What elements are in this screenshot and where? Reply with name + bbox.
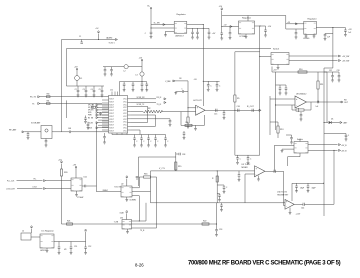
ground below U9 <box>258 176 260 180</box>
wire to +5V rail <box>271 67 273 73</box>
wire switch input left <box>260 56 271 58</box>
capacitor C4 decoupling <box>93 86 95 90</box>
ground below reg3 left pin <box>305 34 307 36</box>
wire op-amp U8 inputs <box>270 98 295 100</box>
wire U10 output <box>294 203 303 205</box>
capacitor C on B+ input <box>150 31 153 33</box>
connector IF_OUT <box>259 109 261 111</box>
resistor R17 on chain <box>216 176 218 182</box>
svg-text:C38: C38 <box>182 154 185 156</box>
capacitor decoupling bus2 <box>141 82 143 84</box>
capacitor C14 on bias feed <box>176 91 183 93</box>
wire chain vertical <box>217 170 218 171</box>
capacitor C46 on antenna line <box>27 132 29 134</box>
svg-text:+4.5V: +4.5V <box>296 214 302 216</box>
wire input to DC regulator <box>31 236 40 238</box>
wire long row y=203 <box>151 202 286 204</box>
wire antenna to U1 <box>52 131 69 133</box>
wire switch2 input <box>275 144 295 146</box>
wire XCVR_RX row <box>131 98 156 100</box>
capacitor C50 <box>58 242 60 248</box>
svg-text:C53: C53 <box>219 229 222 231</box>
capacitor U1 bypass bottom <box>148 135 150 139</box>
wire reg2 input bus <box>221 11 223 34</box>
svg-text:L3: L3 <box>136 74 138 76</box>
wire vertical riser x=139.3 upper <box>138 177 140 188</box>
capacitor decoupling bus2 <box>132 82 134 84</box>
wire riser up to switch2 <box>333 150 335 204</box>
wire inner left vertical <box>66 49 68 87</box>
wire switch section top link <box>235 51 260 53</box>
node +5V flag above reg2 input <box>221 9 223 11</box>
capacitor C51 <box>70 242 72 248</box>
svg-text:L2: L2 <box>124 71 126 73</box>
wire top-left horizontal bus <box>62 39 116 41</box>
resistor R22 near bottom junction <box>202 223 209 225</box>
svg-text:TELEMETRY: TELEMETRY <box>277 194 289 196</box>
wire vertical to bottom bus <box>216 203 218 224</box>
wire inner loop top <box>139 156 176 158</box>
capacitor C47 below J1 <box>45 139 47 141</box>
diode D1 <box>323 122 324 123</box>
capacitor C13 lower left <box>183 131 185 133</box>
svg-text:V_REF: V_REF <box>165 81 170 83</box>
wire B+ to regulator U3 row1 <box>151 24 174 26</box>
capacitor U1 bypass bottom-left <box>104 133 106 137</box>
resistor R2 zigzag to op-amp <box>131 111 143 113</box>
resistor R16 <box>139 176 143 178</box>
capacitor C26 reg3 input <box>295 29 297 33</box>
capacitor C19 series <box>251 109 253 112</box>
svg-text:C15: C15 <box>214 114 217 116</box>
wire inner top horizontal bus <box>67 48 272 50</box>
wire vertical to staircase <box>145 203 147 221</box>
ground below switch <box>277 65 279 68</box>
svg-text:R20: R20 <box>64 172 67 174</box>
svg-text:C44: C44 <box>301 208 304 210</box>
svg-text:R8: R8 <box>179 78 181 80</box>
wire left outer vertical bus <box>61 40 63 132</box>
node +5V flag TCXO bias <box>61 162 63 164</box>
connector J2 power input <box>21 233 31 240</box>
svg-text:R5: R5 <box>237 98 239 100</box>
connector RX_OUT <box>341 101 343 103</box>
wire vertical bus from regulator U3 output <box>202 25 204 107</box>
svg-text:+5V_SW: +5V_SW <box>342 56 349 58</box>
node SPI control labels left of U1 <box>98 104 109 106</box>
wire U9 output <box>265 170 284 172</box>
svg-text:XOUT: XOUT <box>109 119 114 121</box>
resistor R20 vertical <box>60 169 62 176</box>
svg-text:C33: C33 <box>337 70 340 72</box>
svg-text:TCXO: TCXO <box>114 186 119 188</box>
svg-text:LOCK_DET: LOCK_DET <box>6 189 15 191</box>
capacitor decoupling bus2 <box>123 82 125 84</box>
capacitor op-amp supply bypass <box>207 81 209 84</box>
svg-text:C32: C32 <box>329 70 332 72</box>
wire U1 left pin stubs <box>102 99 109 101</box>
wire U13 right pins <box>132 220 147 222</box>
resistor R30 series on RX_TG <box>46 96 50 98</box>
svg-text:1nF: 1nF <box>316 106 319 108</box>
svg-text:C16: C16 <box>237 106 240 108</box>
wire bias feed to op-amp + input <box>173 80 175 82</box>
svg-text:C52: C52 <box>88 246 91 248</box>
node +5V flag above L3 <box>141 60 143 62</box>
ground below U11 <box>76 191 78 195</box>
svg-text:C48: C48 <box>68 128 71 130</box>
capacitor U1 bypass bottom <box>134 135 136 139</box>
svg-text:+3V_B: +3V_B <box>341 151 347 153</box>
svg-text:V8: V8 <box>64 249 66 251</box>
capacitor C22 reg2 input <box>220 32 223 34</box>
capacitor C15 series <box>215 109 217 112</box>
svg-text:XOUT: XOUT <box>109 104 114 106</box>
capacitor C24 reg2 output <box>260 25 266 27</box>
ground below U2 <box>126 197 128 200</box>
ground below reg2 <box>245 34 247 37</box>
wire decoupling bus 1 <box>67 85 105 87</box>
wire op-amp U8 output <box>306 101 317 103</box>
wire XCVR_TX row <box>131 102 156 104</box>
capacitor C48 series on antenna line <box>68 131 70 134</box>
capacitor U1 bypass bottom <box>141 135 143 139</box>
svg-text:R6: R6 <box>186 122 188 124</box>
ground left of reg1 <box>166 30 175 32</box>
svg-text:R16: R16 <box>144 174 147 176</box>
op-amp U2 oscillator TCXO buffer <box>121 186 132 197</box>
svg-text:SPI_EN: SPI_EN <box>88 110 93 112</box>
svg-text:R21: R21 <box>67 220 70 222</box>
node +3V flag right <box>85 232 87 247</box>
wire reg1 output rows <box>187 24 204 26</box>
svg-text:R15: R15 <box>178 166 181 168</box>
wire net stub with label <box>151 170 176 172</box>
svg-text:C3: C3 <box>83 89 85 91</box>
resistor R13 vertical <box>277 126 279 133</box>
wire op-amp U8 power down <box>298 108 300 112</box>
ground below U10 <box>289 208 291 213</box>
wire U10 output to right riser <box>304 203 334 205</box>
capacitor C63 right of U1 <box>131 118 170 120</box>
resistor R5 vertical pull-up <box>234 110 235 111</box>
capacitor C36 <box>291 135 293 138</box>
svg-text:R11: R11 <box>320 84 323 86</box>
wire U2 pin3 to riser <box>132 195 139 197</box>
wire U9 output down to U10 <box>283 171 285 205</box>
capacitor telemetry bypass <box>307 183 309 186</box>
wire U2 pin1 to riser <box>132 187 139 189</box>
wire decoupling bus 2 <box>119 81 147 83</box>
svg-text:Regulator: Regulator <box>242 17 251 20</box>
wire right vertical bus 1 <box>323 68 325 216</box>
resistor R31 series on TX <box>46 103 50 105</box>
wire staircase from U2 <box>132 191 151 193</box>
op-amp U1 transceiver IC <box>109 96 128 134</box>
svg-text:+3V_SW: +3V_SW <box>342 61 349 63</box>
svg-text:TCXO 1: TCXO 1 <box>109 42 115 44</box>
svg-text:U4 TL072: U4 TL072 <box>193 100 203 102</box>
svg-text:U10 TL072: U10 TL072 <box>277 191 288 193</box>
resistor R6 in feedback <box>185 124 192 126</box>
node +5V flag on top-left bus <box>98 39 99 40</box>
wire reg3 output vertical <box>332 28 334 69</box>
node +3V flag above L1 <box>76 69 78 71</box>
capacitor reg1 output bypass <box>197 28 199 32</box>
svg-text:XOUT: XOUT <box>109 122 114 124</box>
wire IF path down to mixer <box>234 110 236 155</box>
wire right vertical bus 2 <box>326 72 328 123</box>
wire switch outputs <box>289 55 338 57</box>
svg-text:XOUT: XOUT <box>109 125 114 127</box>
svg-text:XOUT: XOUT <box>109 101 114 103</box>
wire feedback loop U4 <box>180 112 182 126</box>
capacitor C40 on U9 + input <box>238 171 240 175</box>
capacitor U1 bypass bottom <box>155 135 157 139</box>
node +3V flag above U11 <box>75 167 77 169</box>
capacitor C3 decoupling <box>85 86 87 90</box>
svg-text:Switch: Switch <box>273 47 280 50</box>
svg-text:TX_IF: TX_IF <box>157 104 162 106</box>
capacitor C2 decoupling <box>77 86 79 90</box>
connector 1A-MHZ out <box>115 39 117 41</box>
resistor R32 series in row <box>92 106 96 108</box>
svg-text:R22: R22 <box>203 220 206 222</box>
wire U13 row3 <box>132 227 157 229</box>
inductor L1 ferrite bead <box>76 71 78 76</box>
wire U1 right loop 2 <box>131 114 156 116</box>
wire feedback vertical <box>275 72 277 130</box>
capacitor C21 right of junction <box>203 27 209 29</box>
capacitor op-amp supply bypass <box>216 81 218 84</box>
ground below U13 <box>127 229 129 232</box>
wire bead row <box>103 66 124 68</box>
capacitor C28 reg3 output <box>333 27 346 29</box>
svg-text:R13: R13 <box>280 129 283 131</box>
svg-text:XOUT: XOUT <box>109 116 114 118</box>
capacitor U9 supply bypass <box>237 155 239 158</box>
svg-text:XCVR_TX: XCVR_TX <box>137 104 146 106</box>
wire left vertical bus op-amp section <box>269 96 271 135</box>
resistor R3 to ground <box>187 117 189 123</box>
capacitor C41 series on U9 output <box>273 170 275 173</box>
capacitor C39 <box>136 175 139 177</box>
svg-text:B+_SW: B+_SW <box>154 22 160 24</box>
wire switch2 vertical to U9 <box>274 145 276 171</box>
resistor R11 vertical <box>317 81 319 89</box>
wire to op-amp U9 + input <box>176 170 255 172</box>
capacitor chain 2 <box>217 193 219 195</box>
svg-text:RX_EN: RX_EN <box>88 117 93 119</box>
svg-text:Regulator: Regulator <box>177 13 186 16</box>
svg-text:PLL: PLL <box>34 179 37 181</box>
svg-text:XCVR_RX: XCVR_RX <box>137 97 146 99</box>
svg-text:C51: C51 <box>74 246 77 248</box>
capacitor U9 supply bypass <box>247 155 249 158</box>
svg-text:DC Regulator: DC Regulator <box>42 230 54 233</box>
ground below reg3 right pin <box>313 34 315 36</box>
capacitor C16 series <box>237 109 239 112</box>
svg-text:+5V_B: +5V_B <box>341 145 347 147</box>
capacitor C44 series on U10 output <box>302 203 304 206</box>
capacitor C1 on top-left bus <box>81 40 83 43</box>
inductor L3 ferrite bead vertical <box>141 67 143 72</box>
svg-text:XCVR ANT: XCVR ANT <box>31 122 41 125</box>
ground mid row <box>100 112 102 113</box>
capacitor C31 <box>285 85 287 88</box>
svg-text:R31: R31 <box>47 101 50 103</box>
svg-text:C2: C2 <box>75 89 77 91</box>
svg-text:1uF: 1uF <box>348 32 351 34</box>
connector ANT_OUT <box>340 122 342 124</box>
capacitor C5 decoupling <box>101 86 103 90</box>
svg-text:C1: C1 <box>79 36 81 38</box>
svg-text:R2: R2 <box>148 108 150 110</box>
wire IF bias vertical <box>234 52 236 95</box>
node B+ flag input reg1 <box>150 8 152 10</box>
svg-text:XOUT: XOUT <box>109 130 114 132</box>
ground below U12 <box>46 248 48 251</box>
svg-text:1uF: 1uF <box>327 37 330 39</box>
node flag above input <box>31 227 33 229</box>
svg-text:8-26: 8-26 <box>135 262 144 267</box>
svg-text:U13: U13 <box>120 217 123 219</box>
svg-text:MIXER: MIXER <box>242 167 249 169</box>
svg-text:D1: D1 <box>331 119 333 121</box>
svg-text:26MHZ: 26MHZ <box>103 190 108 192</box>
wire reg2 output <box>255 25 261 27</box>
svg-text:C5: C5 <box>99 89 101 91</box>
wire U10 power feed <box>291 183 293 201</box>
capacitor C20 shunt to ground <box>223 110 225 113</box>
svg-text:C4: C4 <box>91 89 93 91</box>
wire inner vertical segment <box>66 100 68 118</box>
ground switch2 pin <box>282 148 294 150</box>
capacitor decoupling on bead row <box>104 67 106 70</box>
wire B+ to regulator U3 row2 <box>150 27 151 28</box>
resistor R10 on rail <box>298 71 307 73</box>
svg-text:T_EN: T_EN <box>114 222 119 224</box>
capacitor chain 1 <box>217 184 224 186</box>
capacitor C61 left of U1 <box>85 116 87 119</box>
capacitor decoupling on bead row <box>111 67 113 70</box>
svg-text:XOUT: XOUT <box>109 128 114 130</box>
wire +5V feed to op-amp U4 <box>203 81 204 82</box>
capacitor telemetry bypass <box>296 183 298 186</box>
resistor R15 on vertical <box>175 162 177 170</box>
svg-text:LM317: LM317 <box>40 250 46 252</box>
wire U1 bottom right pin <box>131 129 140 131</box>
wire reg3 output <box>316 27 333 29</box>
svg-text:700/800 MHZ RF BOARD VER C SCH: 700/800 MHZ RF BOARD VER C SCHEMATIC (PA… <box>188 260 341 266</box>
wire U1 right loop 1 <box>131 105 148 107</box>
wire U1 top pin stubs <box>111 92 113 96</box>
svg-text:R30: R30 <box>47 94 50 96</box>
wire op-amp U4 + input <box>187 107 188 108</box>
wire U1 right pin stubs <box>128 98 132 100</box>
capacitor C49 right of U11 <box>82 185 85 187</box>
capacitor C23 reg2 input <box>229 27 231 33</box>
svg-text:16.8MHZ: 16.8MHZ <box>130 199 137 201</box>
capacitor C52 <box>84 246 87 248</box>
wire reg3 input row2 <box>286 28 304 30</box>
wire 26MHZ input to U2 <box>97 191 122 193</box>
wire bottom long horizontal bus <box>62 223 217 225</box>
wire vertical x=156.5 <box>156 177 158 228</box>
svg-text:XOUT: XOUT <box>109 99 114 101</box>
wire +5V rail horizontal <box>272 71 339 73</box>
svg-text:17 MHZ: 17 MHZ <box>77 197 84 199</box>
wire op-amp U4 output <box>204 109 259 111</box>
svg-text:U9 TL072: U9 TL072 <box>242 164 252 166</box>
svg-text:TX_EN: TX_EN <box>88 122 93 124</box>
svg-text:RF_ANT: RF_ANT <box>9 129 17 132</box>
wire switch2 outputs <box>308 144 338 146</box>
svg-text:R10: R10 <box>299 69 302 71</box>
connector reg3 enable input <box>286 23 304 25</box>
svg-text:U11: U11 <box>84 177 87 179</box>
wire supply bus above U9 <box>235 154 260 156</box>
wire U12 output <box>54 241 86 243</box>
capacitor C35 below op-amp <box>300 112 302 115</box>
wire reg2 out long vertical to analog section <box>259 26 261 155</box>
capacitor chain 3 below bus <box>221 203 223 205</box>
wire vertical riser x=139.3 lower <box>138 196 140 221</box>
svg-text:1A-MHZ: 1A-MHZ <box>106 36 112 39</box>
svg-text:V_CTL: V_CTL <box>159 168 165 170</box>
svg-text:XOUT: XOUT <box>109 110 114 112</box>
capacitor C37 right bus bypass <box>324 133 346 135</box>
capacitor C34 series on output <box>317 101 319 104</box>
wire telemetry caps bus <box>292 182 324 184</box>
capacitor C53 at bottom junction <box>216 223 217 224</box>
svg-text:PLL_CLK: PLL_CLK <box>7 181 15 183</box>
wire bus2 into U1 top <box>118 82 120 92</box>
svg-text:J2: J2 <box>22 231 24 233</box>
wire join reg3 riser to bus <box>324 67 333 69</box>
resistor R21 on bottom bus <box>67 223 73 225</box>
capacitor reg1 output bypass <box>192 28 194 32</box>
capacitor C29 on +3V bus <box>325 33 333 35</box>
capacitor C32 <box>332 72 334 76</box>
wire left chain vertical lower <box>61 176 63 224</box>
capacitor C62 left of U1 <box>87 122 89 125</box>
wire feed down to reg3 input <box>285 16 287 30</box>
svg-text:U8 LM6142: U8 LM6142 <box>296 94 307 96</box>
wire U2 oscillator flag <box>126 177 128 179</box>
svg-text:LM2941CT: LM2941CT <box>175 35 185 37</box>
svg-text:RX_IF: RX_IF <box>157 97 162 99</box>
wire inner loop left vertical <box>138 157 140 186</box>
capacitor C38 top of loop <box>175 152 177 171</box>
svg-text:Regulator: Regulator <box>308 18 317 21</box>
wire vertical bus x=96.5 <box>96 123 98 192</box>
resistor R12 feedback <box>310 102 312 110</box>
svg-text:RX_TG: RX_TG <box>30 97 37 99</box>
capacitor C33 <box>338 72 340 76</box>
ground on feedback node <box>195 125 197 128</box>
capacitor decoupling bus2 <box>146 82 148 84</box>
svg-text:U2: U2 <box>121 184 123 186</box>
svg-text:XOUT: XOUT <box>109 113 114 115</box>
svg-text:XOUT: XOUT <box>109 107 114 109</box>
capacitor C30 <box>279 85 281 88</box>
wire switch2 bottom loop <box>299 153 301 157</box>
svg-text:IF_OUT: IF_OUT <box>247 106 255 108</box>
inductor L2 ferrite bead horizontal <box>124 65 128 69</box>
capacitor U1 bypass bottom <box>165 135 167 139</box>
wire U1 bottom bus <box>111 133 113 135</box>
